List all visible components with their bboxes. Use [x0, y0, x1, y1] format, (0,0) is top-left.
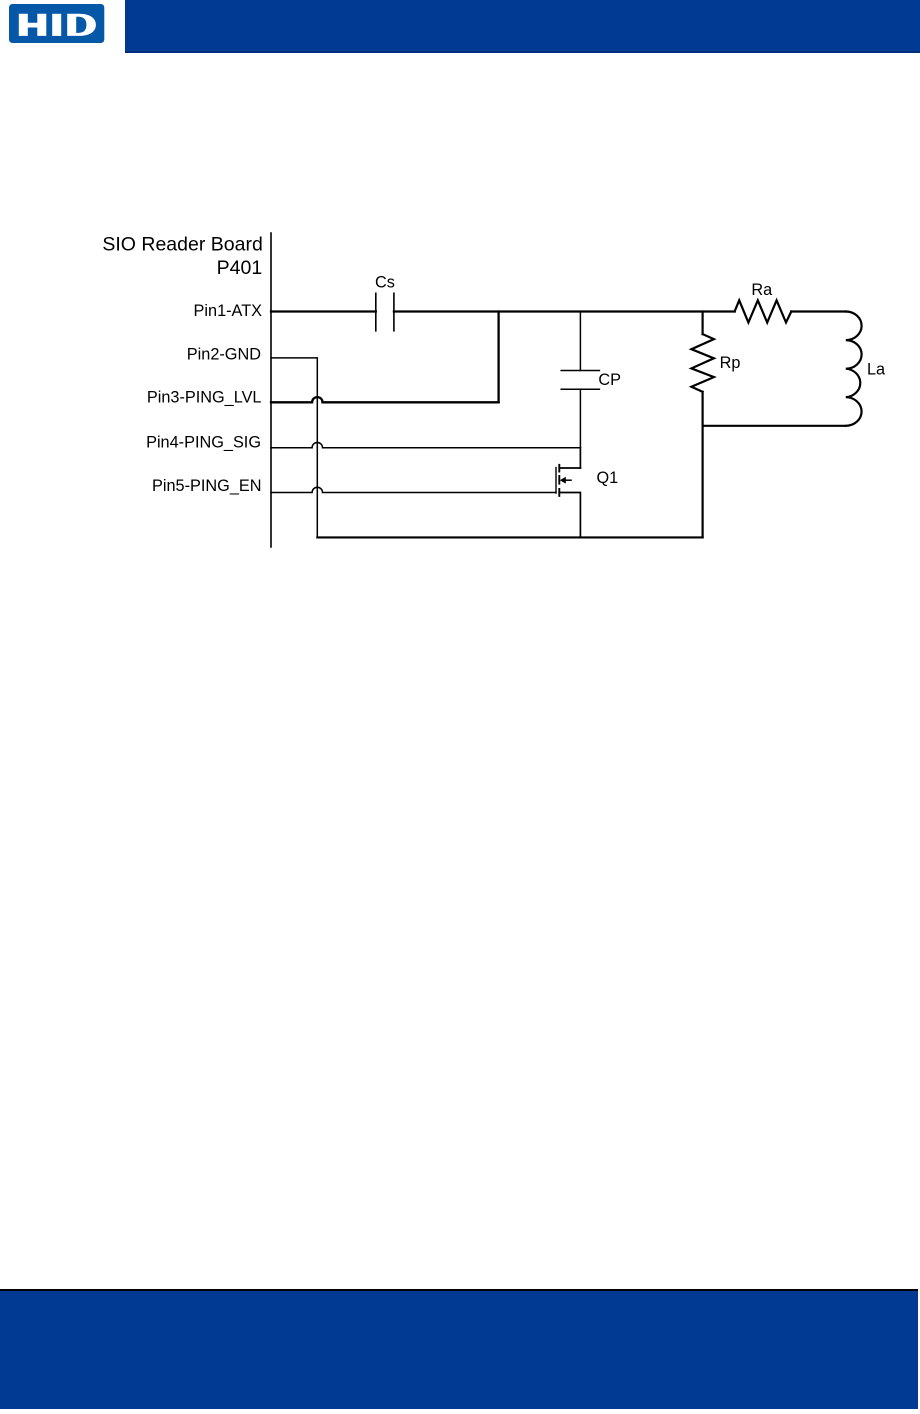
svg-text:Q1: Q1 — [597, 469, 619, 487]
svg-text:CP: CP — [598, 371, 621, 389]
svg-text:Rp: Rp — [720, 354, 741, 372]
svg-text:Pin5-PING_EN: Pin5-PING_EN — [152, 477, 262, 495]
svg-text:SIO Reader Board: SIO Reader Board — [102, 234, 262, 256]
svg-text:Cs: Cs — [375, 273, 395, 291]
svg-text:P401: P401 — [217, 257, 263, 279]
svg-text:Ra: Ra — [751, 281, 773, 299]
svg-text:Pin1-ATX: Pin1-ATX — [194, 302, 263, 320]
svg-text:Pin4-PING_SIG: Pin4-PING_SIG — [146, 433, 261, 451]
svg-text:Pin3-PING_LVL: Pin3-PING_LVL — [147, 389, 262, 407]
svg-text:La: La — [867, 360, 886, 378]
svg-text:Pin2-GND: Pin2-GND — [187, 345, 261, 363]
